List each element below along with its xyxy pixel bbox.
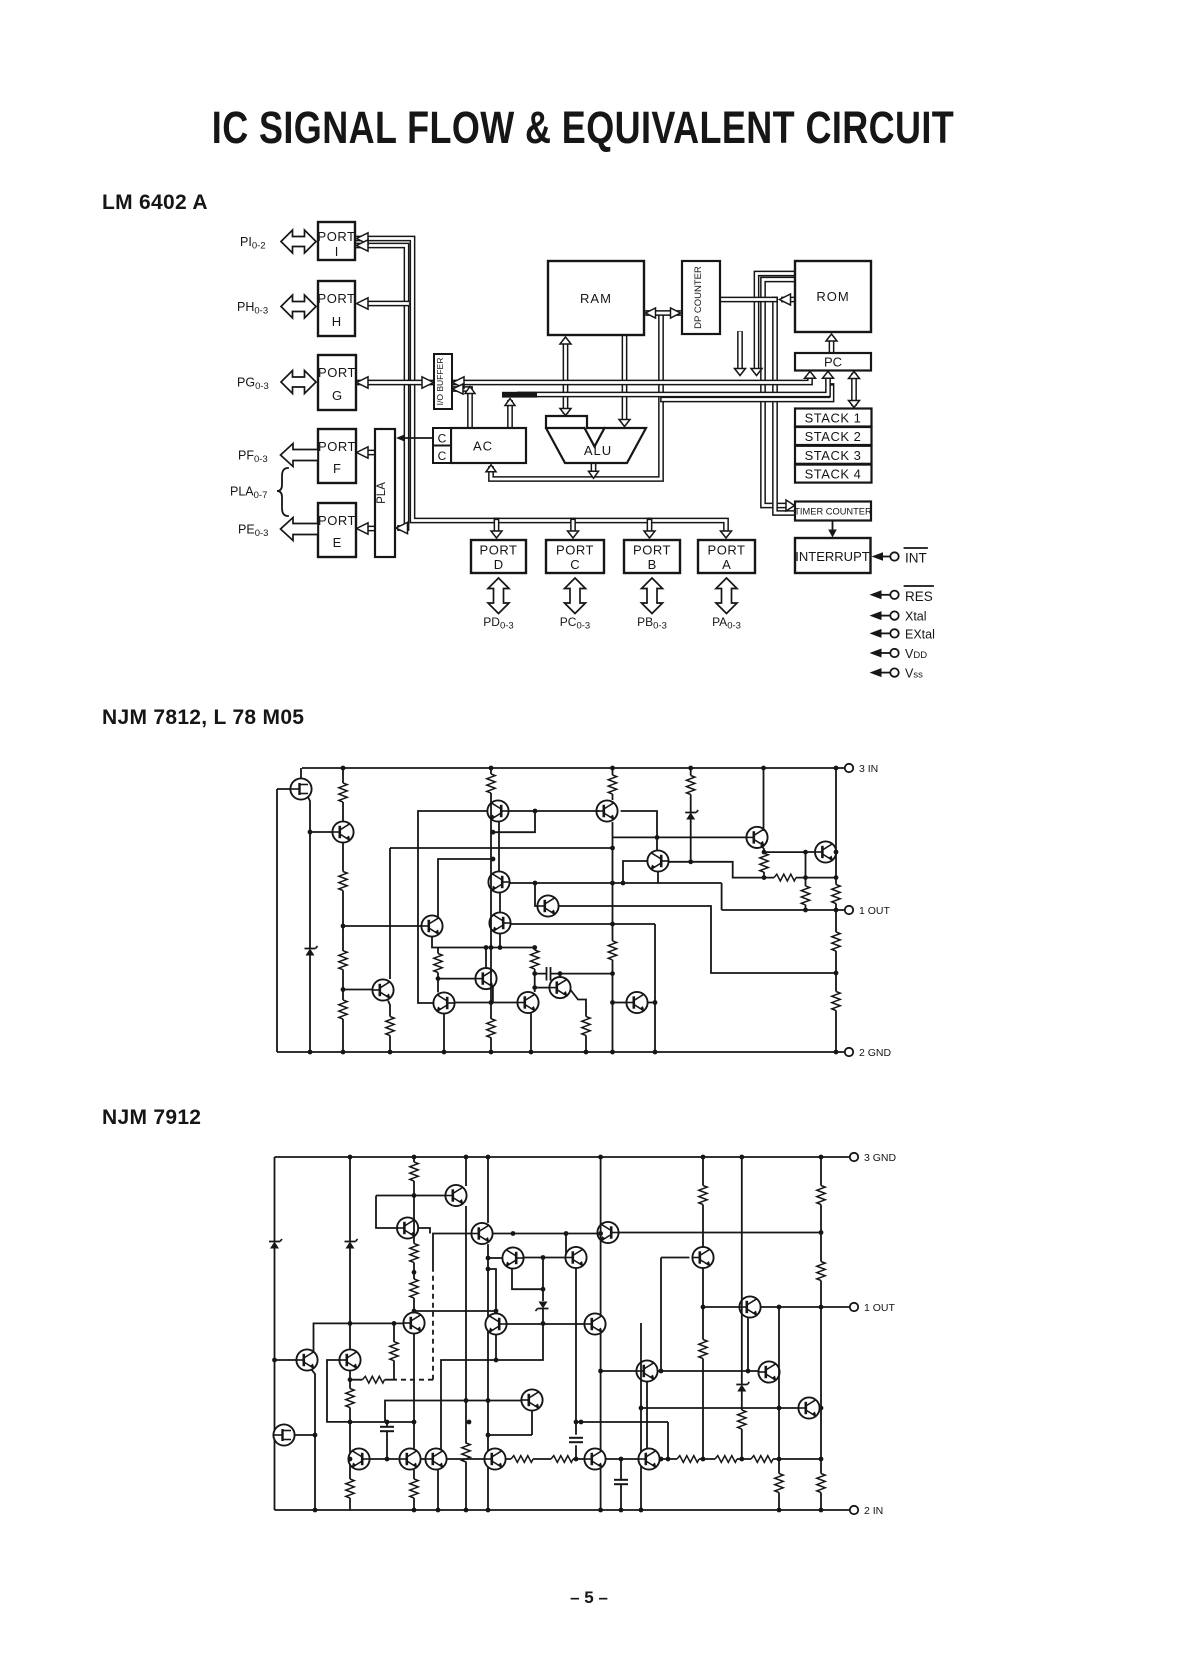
terminal 3 IN bbox=[845, 764, 853, 772]
arrowhead into I/O buffer lower bbox=[453, 384, 464, 394]
resistor R1 bbox=[342, 768, 344, 821]
transistor G21 bbox=[758, 1361, 779, 1382]
wire G8-G9 link bbox=[606, 1458, 639, 1460]
transistor QD bbox=[537, 895, 558, 916]
wire dashed to G13 base bbox=[433, 1234, 471, 1271]
wire y1371 horizontal bbox=[601, 1370, 759, 1372]
block INTERRUPT bbox=[795, 538, 871, 573]
wire PLA to PORT E bbox=[369, 526, 376, 532]
wire T6 emitter down bbox=[499, 934, 501, 948]
wire T4 right to QC top bbox=[621, 811, 657, 850]
transistor G6 bbox=[425, 1448, 446, 1469]
arrowhead down into ALU top bbox=[619, 420, 630, 427]
block PORT I bbox=[318, 222, 356, 260]
transistor G7 bbox=[484, 1448, 505, 1469]
block PORT E bbox=[318, 503, 356, 557]
column 703 with resistors bbox=[702, 1157, 704, 1459]
wire QD base from L2 bbox=[535, 883, 538, 906]
svg-text:VDD: VDD bbox=[905, 647, 927, 661]
wire y1435 link to G16 bbox=[488, 1411, 532, 1435]
wire diode column bbox=[309, 832, 311, 1052]
svg-text:C: C bbox=[438, 432, 447, 446]
wire QD emitter staircase to right rail bbox=[559, 906, 836, 973]
resistor R8 column + cap junction bbox=[534, 948, 536, 993]
arrowhead left ROM output bbox=[780, 294, 791, 305]
arrowhead filled into PLA bbox=[396, 434, 405, 442]
arrowhead up into ROM bbox=[826, 334, 837, 341]
block PORT C bbox=[546, 540, 604, 573]
wire bus PORT G to I/O buffer bbox=[357, 380, 433, 386]
transistor G13 bbox=[471, 1223, 492, 1244]
transistor G19 bbox=[692, 1247, 713, 1268]
resistor R24 top of column 414 bbox=[413, 1157, 415, 1196]
wire bus H2 bar to PC bbox=[520, 377, 828, 395]
wire T3 base loop to column bbox=[493, 811, 535, 832]
transistor Q5 bbox=[421, 915, 442, 936]
wire top rail 3 IN bbox=[302, 767, 845, 769]
transistor G18 bbox=[565, 1247, 586, 1268]
transistor G1 bbox=[296, 1349, 317, 1370]
wire port D drop bbox=[494, 521, 500, 531]
block RAM bbox=[548, 261, 644, 335]
transistor G16 bbox=[521, 1389, 542, 1410]
terminal 1 OUT bbox=[845, 906, 853, 914]
wire G19 base long drop bbox=[661, 1258, 689, 1372]
resistor row R34 R35 R36 bbox=[660, 1458, 821, 1460]
transistor G3 (FET) bbox=[273, 1424, 294, 1445]
wire L923 horizontal bbox=[511, 923, 655, 925]
wire RAM-DP link bbox=[645, 310, 681, 316]
arrowhead down PC-STACK bbox=[849, 401, 860, 408]
wire L2 long horizontal bbox=[510, 883, 722, 910]
arrowhead into PORT I lower bbox=[357, 240, 369, 251]
wire TIMER COUNTER to INTERRUPT bbox=[832, 521, 834, 532]
transistor G22 bbox=[798, 1397, 819, 1418]
external arrow below PORT D bbox=[488, 578, 509, 614]
block PLA bbox=[375, 429, 395, 557]
wire QB emitter node to QE2 base bbox=[761, 845, 806, 878]
svg-text:EXtal: EXtal bbox=[905, 627, 935, 641]
wire G1 base bbox=[275, 1359, 297, 1361]
wire RAM-DP node down to ALU/AC feedback loop bbox=[491, 315, 661, 479]
svg-text:A: A bbox=[722, 557, 731, 572]
transistor G9 bbox=[638, 1448, 659, 1469]
resistor R6 bbox=[437, 948, 439, 993]
node H2 solid bar terminus bbox=[502, 392, 537, 398]
wire AC to I/O buffer riser bbox=[452, 389, 470, 428]
svg-text:Xtal: Xtal bbox=[905, 610, 927, 624]
wire QE emitter down bbox=[492, 987, 494, 1003]
wire G14 emitter loop to 543 column bbox=[512, 1268, 543, 1289]
VDD terminal bbox=[870, 647, 928, 661]
arrowhead up AC riser 2 bbox=[505, 399, 515, 406]
wire bus from PORT I down left column to PLA (nested) bbox=[357, 246, 407, 529]
arrowhead right RAM-DP bbox=[671, 308, 681, 318]
transistor Q1 (FET) bbox=[290, 778, 311, 799]
svg-text:RES: RES bbox=[905, 589, 933, 604]
transistor G10 bbox=[397, 1217, 418, 1238]
wire Q6 base bbox=[343, 989, 372, 991]
wire second column with diode D2 bbox=[349, 1157, 351, 1510]
wire L1 long horizontal bbox=[390, 847, 613, 849]
wire column 600 bbox=[600, 1157, 602, 1510]
wire ROM to PC bbox=[829, 339, 835, 353]
wire G15 collector riser to column 484 bbox=[488, 1269, 496, 1313]
arrowhead into PLA right bbox=[396, 522, 408, 533]
svg-text:AC: AC bbox=[473, 439, 493, 454]
arrowhead up H1 into PC bbox=[805, 371, 816, 378]
arrowhead up PC-STACK bbox=[849, 372, 860, 379]
resistor R21 bbox=[346, 1389, 354, 1408]
capacitor C4 bbox=[569, 1438, 583, 1442]
svg-text:NJM 7812, L 78 M05: NJM 7812, L 78 M05 bbox=[102, 706, 304, 729]
svg-text:C: C bbox=[570, 557, 579, 572]
column x612 with resistor R10 bbox=[612, 768, 614, 1052]
right rail with resistors R15 R16 R17 bbox=[835, 768, 837, 1052]
terminal 3 GND bbox=[850, 1153, 858, 1161]
INT terminal line bbox=[883, 556, 890, 558]
svg-text:1 OUT: 1 OUT bbox=[864, 1302, 896, 1314]
svg-text:RAM: RAM bbox=[580, 291, 612, 306]
svg-text:PORT: PORT bbox=[318, 229, 356, 244]
svg-text:DP COUNTER: DP COUNTER bbox=[693, 266, 704, 329]
transistor G23 bbox=[636, 1360, 657, 1381]
Vss terminal bbox=[870, 667, 924, 681]
wire QC emitter to L2 bbox=[657, 872, 659, 883]
resistor R22 bbox=[346, 1479, 354, 1498]
wire vertical 655 bbox=[654, 924, 656, 1052]
wire QC to zener column bbox=[669, 861, 691, 863]
junction dots bbox=[308, 766, 839, 1055]
svg-text:D: D bbox=[494, 557, 503, 572]
wire G22 emitter bbox=[820, 1407, 821, 1409]
transistor QF bbox=[517, 992, 538, 1013]
resistor R11 and diode D2 column bbox=[690, 768, 692, 862]
INT terminal circle bbox=[890, 552, 898, 560]
wire QB collector to rail bbox=[763, 768, 765, 831]
wire G18 emitter long drop bbox=[575, 1268, 577, 1459]
transistor G12 bbox=[403, 1312, 424, 1333]
arrowhead left RAM-DP bbox=[646, 308, 656, 318]
svg-text:STACK 2: STACK 2 bbox=[805, 429, 862, 444]
wire G15 emitter drop bbox=[495, 1335, 497, 1360]
wire G6 emitter to rail bbox=[437, 1470, 439, 1510]
wire PLA to PORT F bbox=[369, 450, 376, 456]
block DP COUNTER bbox=[682, 261, 720, 334]
arrowhead into PORT G bbox=[357, 377, 369, 388]
external arrow PH0-3 (bidirectional) bbox=[281, 295, 316, 318]
wire QE2 base riser bbox=[806, 852, 816, 878]
arrowhead down into PORT C bbox=[568, 531, 579, 538]
svg-text:LM 6402 A: LM 6402 A bbox=[102, 191, 208, 214]
wire output line 1 OUT bbox=[761, 1306, 850, 1308]
svg-text:I: I bbox=[335, 244, 339, 259]
resistor R23 (horizontal) with dashed run bbox=[350, 1379, 392, 1381]
wire bottom rail 2 IN bbox=[275, 1509, 851, 1511]
arrowhead filled into INTERRUPT bbox=[828, 530, 837, 538]
wire G5-G6 link bbox=[421, 1458, 426, 1460]
wire left rail with diode bbox=[274, 1157, 276, 1510]
arrowhead into I/O buffer left bbox=[422, 377, 434, 388]
wire G17 to right column bbox=[619, 1232, 821, 1234]
wire G3 to column bbox=[295, 1434, 315, 1436]
svg-text:PORT: PORT bbox=[318, 365, 356, 380]
transistor G2 bbox=[339, 1349, 360, 1370]
svg-text:Vss: Vss bbox=[905, 667, 923, 681]
svg-text:B: B bbox=[648, 557, 657, 572]
external arrow below PORT B bbox=[642, 578, 663, 614]
svg-text:NJM 7912: NJM 7912 bbox=[102, 1106, 201, 1129]
svg-text:PORT: PORT bbox=[318, 513, 356, 528]
transistor G14 bbox=[502, 1247, 523, 1268]
wire QE collector up bbox=[485, 948, 487, 969]
wire 837 horizontal to QB base bbox=[613, 836, 747, 838]
EXtal terminal bbox=[870, 627, 935, 641]
wire column 779 from OUT line bbox=[778, 1307, 780, 1459]
wire G12 emitter down to 1422 node bbox=[413, 1334, 415, 1449]
svg-text:H: H bbox=[332, 314, 341, 329]
wire ALU output into feedback bbox=[591, 464, 597, 471]
wire output line bbox=[722, 909, 845, 911]
arrowhead into PORT F bbox=[357, 447, 369, 458]
wire ROM upper link P1 down to bus bbox=[757, 274, 796, 371]
svg-text:G: G bbox=[332, 388, 342, 403]
wire QE base bbox=[438, 978, 475, 980]
transistor QE2 bbox=[815, 841, 836, 862]
svg-text:PORT: PORT bbox=[708, 543, 746, 558]
arrowhead into PORT E bbox=[357, 523, 369, 534]
svg-text:1 OUT: 1 OUT bbox=[859, 905, 891, 917]
wire bus H1 I/O buffer to PC bbox=[453, 377, 810, 383]
wire R13 to rail bbox=[764, 877, 836, 879]
wire T3-T4 link bbox=[509, 810, 600, 812]
external arrow PE0-3 (out) bbox=[281, 518, 319, 541]
arrowhead right into TIMER COUNTER bbox=[786, 500, 795, 511]
block ROM bbox=[795, 261, 871, 332]
transistor QH bbox=[626, 992, 647, 1013]
wire G13 collector column bbox=[487, 1157, 489, 1510]
arrowhead into PORT I upper bbox=[357, 233, 369, 244]
RES terminal bbox=[870, 586, 934, 604]
wire T5-T6 link bbox=[499, 893, 501, 913]
external arrow PI0-2 (bidirectional) bbox=[281, 230, 316, 253]
wire T3-T5 link bbox=[498, 822, 500, 872]
wire port B drop bbox=[647, 521, 653, 531]
wire bottom rail 2 GND bbox=[277, 1051, 845, 1053]
wire Q5 base bbox=[343, 925, 421, 927]
wire G18 base drop bbox=[565, 1234, 567, 1258]
block I/O BUFFER bbox=[434, 354, 452, 409]
svg-text:ROM: ROM bbox=[816, 289, 849, 304]
svg-text:I/O BUFFER: I/O BUFFER bbox=[435, 358, 445, 406]
block PORT A bbox=[698, 540, 755, 573]
wire QG emitter to R9 bbox=[571, 990, 586, 1052]
svg-text:F: F bbox=[333, 461, 341, 476]
transistor G8 bbox=[584, 1448, 605, 1469]
arrowhead down into PORT B bbox=[644, 531, 655, 538]
svg-text:PORT: PORT bbox=[318, 291, 356, 306]
transistor T24 bbox=[584, 1313, 605, 1334]
arrowhead up H2 into PC bbox=[823, 371, 834, 378]
junction dots bbox=[272, 1155, 823, 1513]
wire column 543 with diode D4 bbox=[441, 1258, 543, 1451]
external arrow below PORT A bbox=[716, 578, 737, 614]
svg-text:PORT: PORT bbox=[318, 439, 356, 454]
transistor QB bbox=[746, 827, 767, 848]
block PORT G bbox=[318, 355, 356, 410]
resistor R37 below row bbox=[778, 1459, 780, 1510]
arrowhead up into AC bottom bbox=[486, 465, 496, 472]
wire Q5 emitter to 947 line bbox=[432, 937, 535, 948]
block STACK 1 bbox=[795, 409, 872, 427]
transistor T5 bbox=[488, 871, 509, 892]
wire RAM right to ALU top bbox=[622, 336, 628, 421]
wire G10 collector to 1232 node bbox=[418, 1228, 430, 1234]
transistor G17 bbox=[597, 1222, 618, 1243]
capacitor C2 bbox=[386, 1422, 388, 1459]
svg-text:C: C bbox=[438, 449, 447, 463]
brace PLA0-7 group bbox=[277, 468, 288, 516]
external arrow PF0-3 (out) bbox=[281, 444, 319, 467]
wire RAM left to ALU step (bidirectional) bbox=[563, 342, 569, 411]
wire G1 collector riser to G12 base row bbox=[314, 1323, 404, 1351]
svg-text:PC: PC bbox=[824, 355, 842, 370]
wire G11 base row and G10 loop bbox=[376, 1196, 445, 1229]
transistor Q7 bbox=[433, 992, 454, 1013]
diode D1 (zener) bbox=[305, 946, 318, 956]
svg-text:PORT: PORT bbox=[480, 543, 518, 558]
wire G14 base bbox=[488, 1257, 502, 1259]
wire G4 base to G5 bbox=[370, 1458, 399, 1460]
wire G5 emitter to rail via R27 bbox=[413, 1470, 415, 1510]
arrowhead into I/O buffer right bbox=[453, 377, 465, 388]
wire 641 column bbox=[640, 1323, 642, 1510]
svg-text:2 GND: 2 GND bbox=[859, 1047, 892, 1059]
arrowhead down into PORT D bbox=[491, 531, 502, 538]
resistor R13 (horizontal) bbox=[774, 874, 796, 881]
block PC bbox=[795, 353, 871, 371]
resistor R12 bbox=[760, 853, 768, 872]
wire bus PORT H branch bbox=[369, 301, 407, 307]
svg-text:INT: INT bbox=[905, 551, 927, 566]
wire QF emitter bbox=[530, 1014, 532, 1053]
Xtal terminal bbox=[870, 610, 927, 624]
transistor T3 bbox=[487, 800, 508, 821]
wire Q5 collector riser to column bbox=[438, 859, 493, 919]
wire PLA control line from C bbox=[400, 437, 434, 439]
wire DP COUNTER down to bus bbox=[737, 334, 743, 370]
arrowhead down ALU output bbox=[589, 471, 599, 478]
wire QG collector up bbox=[559, 974, 561, 977]
wire R2 column bbox=[342, 843, 344, 1052]
wire top rail 3 GND bbox=[275, 1156, 851, 1158]
arrowhead up AC riser 1 bbox=[465, 387, 475, 394]
transistor G20 bbox=[739, 1296, 760, 1317]
block PORT F bbox=[318, 429, 356, 483]
transistor Q2 bbox=[332, 821, 353, 842]
wire G15 base to 543 and T24 base bbox=[507, 1323, 585, 1325]
svg-text:PORT: PORT bbox=[633, 543, 671, 558]
column 741.8 with zener D3 and resistor bbox=[741, 1157, 743, 1459]
svg-text:E: E bbox=[333, 535, 342, 550]
diode D2 (zener) bbox=[345, 1239, 358, 1249]
block PORT D bbox=[471, 540, 526, 573]
transistor G11 bbox=[445, 1185, 466, 1206]
transistor T4 bbox=[596, 800, 617, 821]
svg-text:PORT: PORT bbox=[556, 543, 594, 558]
svg-text:STACK 3: STACK 3 bbox=[805, 448, 862, 463]
svg-text:ALU: ALU bbox=[584, 443, 612, 458]
svg-text:3 IN: 3 IN bbox=[859, 763, 878, 775]
transistor Q6 bbox=[372, 979, 393, 1000]
wire Q6 column and resistor R5 bbox=[388, 848, 390, 1052]
transistor G5 bbox=[399, 1448, 420, 1469]
arrowhead down into PORT A bbox=[721, 531, 732, 538]
wire Q7-QF link bbox=[455, 1002, 518, 1004]
capacitor C1 bbox=[535, 973, 613, 975]
block PORT H bbox=[318, 281, 356, 336]
wire QH to vertical 655 bbox=[648, 1002, 655, 1004]
external arrow PG0-3 (bidirectional) bbox=[281, 371, 316, 394]
wire G22 base bbox=[641, 1407, 798, 1409]
wire staircase zener node to R12 bbox=[691, 862, 764, 878]
resistor R7 column bbox=[490, 768, 492, 1052]
svg-text:STACK 1: STACK 1 bbox=[805, 411, 862, 426]
wire left rail bbox=[276, 789, 278, 1052]
wire bus H3 to PC riser bbox=[663, 386, 832, 400]
arrowhead up into RAM bbox=[560, 337, 571, 344]
svg-text:IC SIGNAL FLOW & EQUIVALENT CI: IC SIGNAL FLOW & EQUIVALENT CIRCUIT bbox=[212, 102, 954, 153]
capacitor C5 bbox=[620, 1459, 622, 1510]
transistor QC bbox=[647, 850, 668, 871]
transistor G15 bbox=[485, 1313, 506, 1334]
block PORT B bbox=[624, 540, 680, 573]
svg-text:TIMER COUNTER: TIMER COUNTER bbox=[794, 507, 872, 517]
arrowhead down DP at bus H1 bbox=[735, 369, 746, 376]
diode D1 (zener) bbox=[269, 1239, 282, 1249]
block AC with C C cells bbox=[433, 428, 526, 463]
wire G20 emitter drop bbox=[747, 1318, 749, 1371]
svg-text:– 5 –: – 5 – bbox=[570, 1588, 608, 1607]
wire T3 base loop to Q7 bbox=[418, 811, 487, 1003]
transistor QE bbox=[475, 968, 496, 989]
svg-text:2 IN: 2 IN bbox=[864, 1505, 883, 1517]
arrowhead down into ALU step bbox=[560, 409, 571, 416]
wire PC to STACK bbox=[851, 376, 857, 403]
wire long column 466 bbox=[465, 1157, 467, 1510]
wire Q1 to top rail bbox=[277, 768, 310, 832]
resistor R2 bbox=[339, 872, 347, 891]
terminal 2 IN bbox=[850, 1506, 858, 1514]
wire DP/ROM node P3 down to timer counter lower entry bbox=[775, 300, 794, 514]
wire G1 emitter column bbox=[311, 1369, 315, 1510]
svg-text:INTERRUPT: INTERRUPT bbox=[795, 549, 869, 564]
block STACK 4 bbox=[795, 465, 872, 483]
wire 1311 stub to G15 riser bbox=[414, 1310, 496, 1312]
transistor QG bbox=[549, 977, 570, 998]
wire G6-G7 link bbox=[447, 1458, 485, 1460]
svg-text:PLA: PLA bbox=[376, 482, 388, 504]
wire 1422 jog bbox=[350, 1401, 668, 1460]
wire AC riser to H2 bar bbox=[507, 403, 513, 428]
external arrow below PORT C bbox=[565, 578, 586, 614]
block ALU bbox=[546, 416, 646, 463]
terminal 1 OUT bbox=[850, 1303, 858, 1311]
arrowhead into PORT H bbox=[357, 298, 369, 309]
wire QC base loop to L2 bbox=[623, 861, 647, 883]
arrowhead down P1 at bus H1 bbox=[751, 369, 762, 376]
block TIMER COUNTER bbox=[794, 502, 872, 521]
